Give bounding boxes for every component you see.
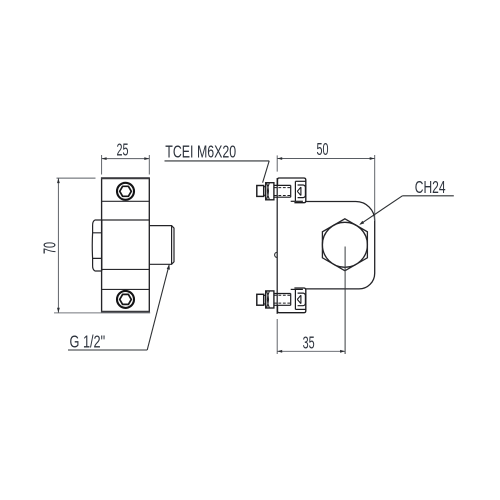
internal line 2 bbox=[102, 219, 150, 221]
center line down bbox=[344, 247, 346, 355]
body bottom edge thick bbox=[101, 311, 150, 313]
G1/2 protrusion right bbox=[149, 226, 174, 265]
internal line 3 bbox=[102, 268, 150, 270]
G 1/2 underline bbox=[68, 349, 147, 351]
dim 70 arrows bbox=[57, 178, 60, 183]
dim 25 extension lines bbox=[101, 155, 103, 175]
CH24 arrow bbox=[359, 221, 364, 225]
body top edge thick bbox=[101, 177, 150, 179]
TCEI underline bbox=[165, 160, 270, 162]
dim 50 arrows bbox=[277, 157, 282, 160]
screw top (front) outer circle bbox=[117, 183, 134, 200]
svg-text:35: 35 bbox=[303, 334, 315, 353]
bottom screw assembly (mirrored) bbox=[257, 288, 306, 313]
CH24 underline bbox=[402, 195, 453, 197]
svg-text:CH24: CH24 bbox=[415, 178, 446, 198]
svg-text:70: 70 bbox=[41, 242, 60, 254]
internal line 4 bbox=[102, 288, 150, 290]
screw head bbox=[257, 186, 264, 197]
plate edge line upper (50 dim extension) bbox=[276, 155, 278, 171]
screw end face bbox=[290, 185, 292, 197]
svg-text:50: 50 bbox=[316, 140, 328, 159]
inscribed circle bbox=[322, 222, 367, 267]
main body rounded outline bbox=[306, 202, 375, 289]
hex nut side profile left bbox=[92, 220, 102, 271]
svg-text:TCEI M6X20: TCEI M6X20 bbox=[165, 143, 236, 163]
top screw assembly bbox=[257, 178, 306, 203]
G 1/2 leader arrow bbox=[167, 264, 170, 269]
body outline left view bbox=[102, 178, 150, 312]
shank stub bbox=[264, 186, 266, 188]
CH24 leader bbox=[360, 196, 402, 224]
plate edge line lower (35 dim extension) bbox=[276, 319, 278, 354]
bracket outer bbox=[278, 178, 306, 203]
dim 35 arrows bbox=[277, 350, 282, 353]
dim 70 extension lines bbox=[57, 177, 96, 179]
dim 35 line bbox=[277, 350, 345, 352]
hex bolt head CH24 bbox=[322, 219, 367, 271]
plate bump bbox=[275, 252, 278, 257]
plate edge line main bbox=[276, 178, 278, 314]
washer bbox=[266, 183, 274, 200]
bracket inner slot bbox=[294, 181, 296, 201]
dim 25 arrows bbox=[102, 157, 107, 160]
dim 70 line bbox=[57, 178, 59, 313]
nut piece bbox=[298, 185, 306, 198]
right extension line (50 dim) bbox=[374, 155, 376, 221]
svg-text:25: 25 bbox=[117, 141, 129, 160]
G 1/2 leader bbox=[147, 265, 169, 350]
dim 25 line bbox=[102, 158, 150, 160]
dim 50 line bbox=[277, 158, 375, 160]
TCEI leader bbox=[263, 161, 270, 183]
screw bottom hex socket bbox=[120, 294, 132, 304]
thread dashed lines bbox=[274, 187, 291, 189]
internal line 1 bbox=[102, 200, 150, 202]
screw bottom (front) outer circle bbox=[117, 291, 134, 308]
shank solid lines bbox=[274, 184, 291, 186]
screw top hex socket bbox=[120, 186, 132, 196]
svg-text:G 1/2": G 1/2" bbox=[70, 332, 106, 352]
